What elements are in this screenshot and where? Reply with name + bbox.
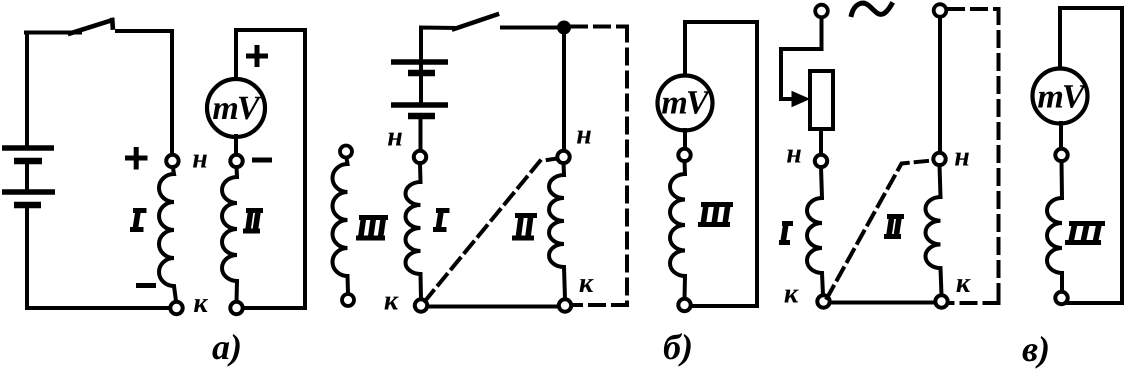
AC terminal left (circuit v)	[815, 5, 828, 18]
label III (circuit v)	[1065, 224, 1105, 243]
wire: b mV loop bottom	[691, 304, 757, 308]
node n of coil II (circuit v)	[933, 153, 945, 165]
wire: v bottom between coils	[830, 301, 935, 305]
wire: b mV loop top	[685, 20, 757, 24]
wire: a stub meter to node	[234, 136, 238, 155]
switch S blade (circuit b)	[454, 15, 497, 30]
node k of coil I (circuit b)	[415, 299, 427, 311]
AC tilde symbol (circuit v)	[852, 3, 892, 14]
svg-text:mV: mV	[212, 90, 261, 127]
label II (circuit v)	[884, 217, 904, 237]
node k of coil II (circuit b)	[559, 299, 571, 311]
svg-text:б): б)	[663, 327, 693, 367]
wire: v terminal to rheostat wiper	[781, 18, 822, 100]
wire: v mV loop right	[1120, 8, 1124, 303]
svg-text:к: к	[193, 288, 208, 319]
coil III (circuit b)	[670, 161, 685, 299]
dashed wire: v bottom right	[950, 301, 999, 305]
wire: v meter to node	[1059, 123, 1063, 149]
junction dot (circuit b)	[558, 21, 571, 34]
coil II (circuit a)	[222, 167, 237, 302]
voltmeter mV (circuit a)	[207, 79, 265, 137]
node k of coil II (circuit a)	[230, 302, 242, 314]
node k of coil I (circuit a)	[170, 302, 182, 314]
dashed wire: v top right	[949, 7, 999, 11]
svg-text:а): а)	[212, 327, 242, 367]
wire: b battery down to node n	[419, 116, 423, 151]
svg-text:к: к	[579, 268, 594, 299]
svg-text:к: к	[784, 278, 799, 309]
node n of coil I (circuit v)	[815, 155, 827, 167]
wire: b bottom between coils	[428, 305, 558, 309]
battery GB (circuit a) plate short 1	[14, 158, 42, 165]
wire: battery inter-cell stub (circuit b)	[419, 73, 423, 105]
minus label below coil I (circuit a)	[136, 283, 156, 288]
svg-text:в): в)	[1022, 329, 1050, 369]
wire: a right loop bottom	[243, 306, 305, 310]
minus label right of node (circuit a)	[252, 158, 272, 163]
node k of coil II (circuit v)	[935, 295, 947, 307]
rheostat wiper arrow (circuit v)	[792, 92, 809, 107]
coil II (circuit b)	[549, 163, 565, 299]
wire: b mV loop right	[755, 22, 759, 306]
battery GB (circuit a) plate short 2	[14, 202, 41, 209]
label I (circuit v)	[779, 224, 793, 243]
wire: b meter to node	[683, 130, 687, 149]
label III (circuit b)	[698, 205, 733, 225]
wire: v mV loop top	[1060, 6, 1122, 10]
node k of coil I (circuit v)	[817, 295, 829, 307]
battery GB (circuit b) plate short 1	[408, 70, 435, 77]
label I (circuit a)	[130, 211, 147, 230]
node bottom of coil III (circuit v)	[1055, 292, 1067, 304]
wire: b contact to junction	[502, 26, 564, 30]
wire: b mV stub top	[683, 22, 687, 77]
wire: b junction down to coil II n	[562, 34, 566, 151]
label II (circuit b)	[512, 216, 537, 239]
coil I (circuit v)	[807, 167, 823, 295]
wire: a right loop right side	[303, 30, 307, 308]
wire: b top-left corner and battery stub	[421, 28, 456, 71]
switch S blade (circuit a)	[70, 20, 113, 34]
wire: battery inter-cell stub (circuit a)	[25, 161, 29, 192]
spare coil III (circuit b)	[333, 158, 348, 293]
dashed wire: b top right	[572, 25, 627, 29]
svg-text:н: н	[576, 119, 592, 150]
plus label left of node n (circuit a)	[125, 147, 148, 170]
coil II (circuit v)	[925, 165, 941, 295]
wire: a left loop top-left segment	[26, 31, 80, 35]
coil III (circuit v)	[1047, 161, 1062, 292]
battery GB (circuit b) plate long 2	[391, 102, 448, 108]
node bottom of coil III (circuit b)	[678, 299, 690, 311]
voltmeter mV (circuit b)	[658, 76, 713, 131]
svg-text:н: н	[192, 143, 208, 174]
dashed wire: v right vertical	[997, 9, 1001, 303]
node n of coil I (circuit a)	[166, 155, 178, 167]
battery GB (circuit a) plate long 1	[2, 145, 54, 151]
svg-text:н: н	[387, 121, 403, 152]
node n of coil II (circuit b)	[557, 151, 569, 163]
rheostat body (circuit v)	[810, 71, 833, 129]
label I (circuit b)	[433, 211, 450, 230]
battery GB (circuit b) plate long 1	[391, 59, 448, 65]
dashed wire: b bottom right	[573, 303, 627, 307]
voltmeter mV (circuit v)	[1033, 69, 1088, 124]
node n of coil II (circuit a)	[230, 155, 242, 167]
wire: v mV stub top	[1058, 8, 1062, 70]
wire: a left vertical battery to bottom corner	[27, 205, 28, 308]
wire: a top right contact segment	[117, 29, 172, 33]
svg-text:mV: mV	[661, 84, 710, 121]
dashed wire: b right vertical	[625, 27, 629, 306]
coil I (circuit b)	[406, 163, 421, 299]
wire: a bottom wire to coil I k node	[27, 306, 169, 310]
svg-text:н: н	[786, 138, 802, 169]
wire: a right vertical down to coil I n node	[170, 31, 174, 155]
coil I (circuit a)	[159, 167, 176, 301]
plus label top of right loop (circuit a)	[246, 45, 268, 67]
svg-text:mV: mV	[1037, 78, 1086, 115]
node top of coil III (circuit v)	[1055, 149, 1067, 161]
label II (circuit a)	[243, 211, 263, 232]
wire: v right terminal down to coil II	[938, 17, 942, 153]
svg-text:к: к	[384, 285, 399, 316]
wire: a stub above meter	[234, 30, 238, 81]
spare coil III top terminal (circuit b)	[340, 146, 352, 158]
wire: v mV loop bottom	[1068, 301, 1122, 305]
dashed link k(I) to n(II) (circuit v)	[827, 161, 927, 298]
AC terminal right (circuit v)	[934, 4, 947, 17]
svg-text:н: н	[954, 141, 970, 172]
wire: a right loop top	[236, 28, 305, 32]
wire: v rheostat to node n	[819, 129, 823, 155]
dashed link k(I) to n(II) (circuit b)	[425, 159, 557, 302]
svg-text:к: к	[956, 268, 971, 299]
node top of coil III (circuit b)	[678, 149, 690, 161]
label III spare coil (circuit b)	[356, 218, 388, 239]
wire: a left vertical from corner down to battery	[26, 33, 27, 149]
battery GB (circuit a) plate long 2	[2, 189, 55, 195]
spare coil III bottom terminal (circuit b)	[342, 294, 354, 306]
battery GB (circuit b) plate short 2	[408, 113, 435, 120]
node n of coil I (circuit b)	[414, 151, 426, 163]
